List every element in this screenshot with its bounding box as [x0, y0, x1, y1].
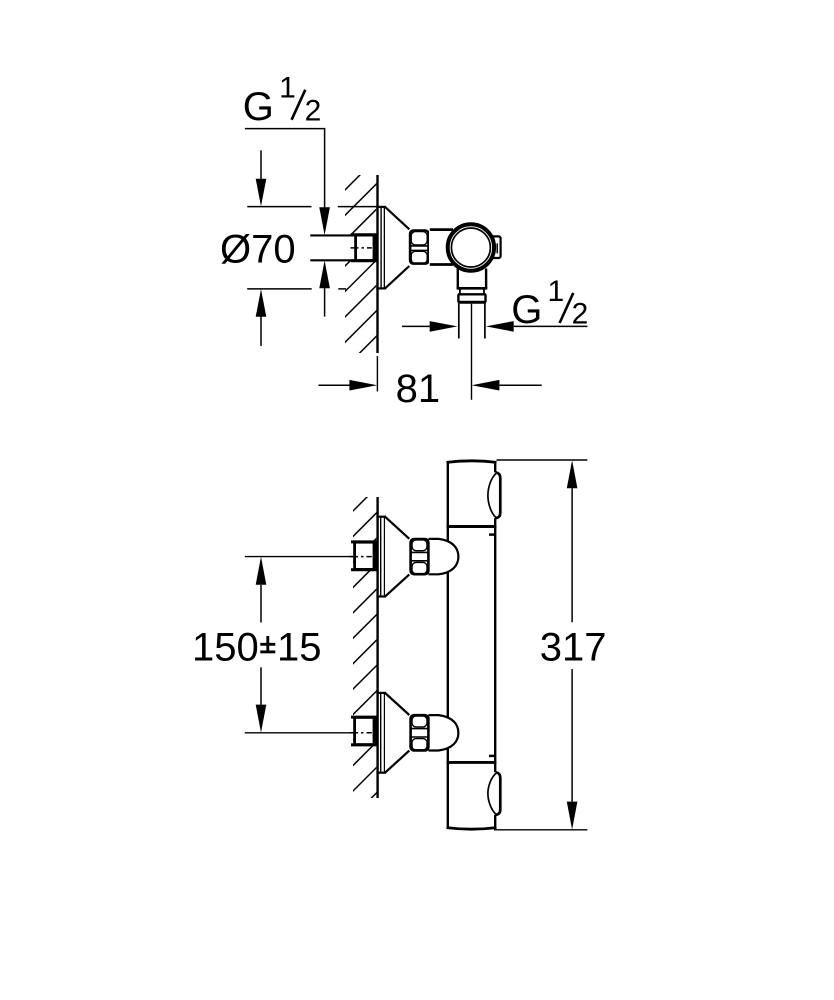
wall union nut (top figure): [356, 235, 376, 260]
svg-text:150: 150: [192, 626, 259, 670]
upper hex nut: [410, 539, 429, 574]
dia70 arrow bottom: [260, 317, 262, 346]
wall extension line for 81: [376, 356, 378, 392]
317 dimension line and arrows: [567, 460, 578, 829]
top handle tick: [489, 533, 496, 536]
svg-text:2: 2: [572, 297, 589, 330]
lower escutcheon flange fill: [376, 693, 385, 773]
thermostat bar body: [447, 460, 497, 830]
lower union centerline (dash-dot): [350, 732, 372, 734]
label 150+-15: [192, 626, 322, 670]
valve round body (inner ring): [451, 228, 490, 267]
outlet inset ring: [460, 288, 484, 294]
valve body cylinder: [429, 230, 455, 265]
svg-text:G: G: [243, 85, 274, 129]
bottom cap separation line: [447, 761, 497, 764]
svg-text:G: G: [511, 288, 542, 332]
wall hatching (lower figure): [351, 486, 379, 819]
wall face line (top figure): [376, 175, 378, 353]
150 extension line bottom: [245, 732, 354, 734]
bottom handle tick: [489, 755, 496, 758]
lower union dome: [429, 715, 459, 750]
svg-text:1: 1: [279, 72, 296, 105]
hex nut (top figure): [409, 231, 429, 264]
150 dimension line and arrows: [256, 557, 267, 733]
top handle grip bump: [488, 472, 502, 518]
escutcheon flange fill: [376, 207, 385, 289]
150 extension line top: [245, 556, 354, 558]
svg-text:317: 317: [540, 626, 607, 670]
dia70 extension line bottom: [247, 288, 312, 290]
upper union dome: [429, 539, 459, 574]
escutcheon cone: [385, 207, 410, 289]
leader arrow down to pipe top: [319, 207, 330, 235]
wall hatching (top figure): [343, 156, 379, 395]
bottom handle grip bump: [488, 772, 502, 815]
outlet stub below valve: [457, 269, 488, 289]
dia70 extension line top: [247, 206, 311, 208]
lower escutcheon cone: [385, 693, 410, 774]
lower wall union nut: [355, 717, 376, 744]
escutcheon flange edges: [376, 207, 386, 289]
317 extension line bottom: [494, 829, 587, 831]
pipe centerline (dash-dot): [351, 247, 372, 249]
hose nut bands: [458, 294, 486, 302]
lower escutcheon flange edges: [376, 693, 386, 773]
svg-text:2: 2: [305, 94, 322, 127]
valve round body (outer ring): [448, 224, 494, 270]
svg-text:15: 15: [277, 626, 322, 670]
svg-text:Ø70: Ø70: [220, 228, 296, 272]
upper union centerline (dash-dot): [350, 556, 372, 558]
dia70 arrow top: [260, 150, 262, 179]
top cap separation line: [447, 525, 497, 528]
svg-text:1: 1: [548, 275, 565, 308]
wall face line (lower figure): [376, 497, 378, 798]
side tab on valve: [490, 236, 500, 258]
svg-text:81: 81: [396, 367, 441, 411]
hose stub: [459, 304, 485, 339]
upper escutcheon cone: [385, 516, 410, 597]
317 extension line top: [497, 459, 588, 461]
arrow up to pipe bottom: [319, 261, 330, 289]
hose centerline: [471, 304, 473, 400]
leader line G1/2 top: [245, 129, 325, 208]
upper escutcheon flange fill: [376, 517, 385, 597]
81 dimension: [319, 384, 350, 386]
label G 1/2 (right): [511, 275, 588, 332]
tab inner line: [496, 243, 498, 253]
inlet pipe through wall: [310, 235, 355, 260]
upper wall union nut: [355, 542, 376, 569]
upper escutcheon flange edges: [376, 517, 386, 597]
lower hex nut: [410, 715, 429, 750]
label G 1/2 (top): [243, 72, 322, 129]
hose G1/2 dimension line: [402, 325, 430, 327]
